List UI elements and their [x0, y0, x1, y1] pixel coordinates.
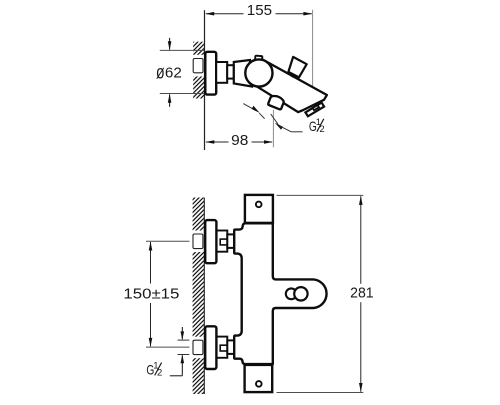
dimension 155 line — [206, 13, 312, 15]
G1/2 upper leader arrow 1 — [243, 104, 256, 111]
small outlet circle — [286, 288, 297, 299]
lower escutcheon — [205, 326, 216, 369]
dimension 98 line — [206, 141, 272, 143]
valve head circle — [245, 59, 272, 86]
wall line upper — [204, 10, 206, 150]
aerator strip — [305, 103, 324, 117]
inlet square in wall upper — [193, 59, 203, 73]
dimension 150+-15 line and arrows — [150, 242, 152, 284]
top bracket hole — [256, 202, 262, 208]
big outlet circle — [294, 287, 307, 300]
upper nut — [227, 234, 234, 248]
faucet flange — [205, 52, 216, 95]
wall hatch lower — [191, 198, 204, 395]
wall hatch upper — [192, 42, 205, 99]
lower nut — [227, 340, 234, 354]
G1/2 lower text — [146, 361, 162, 379]
aerator window — [313, 105, 319, 110]
cap on valve top — [255, 56, 262, 61]
svg-text:ø: ø — [156, 62, 165, 83]
faucet body slab — [256, 60, 327, 112]
svg-text:98: 98 — [231, 132, 248, 149]
body column — [234, 223, 326, 364]
G1/2 upper leader arrow 2 — [275, 123, 283, 130]
svg-text:150±15: 150±15 — [123, 285, 179, 302]
dimension 281 extension lines — [277, 195, 364, 392]
G1/2 upper leader ticks — [259, 113, 264, 118]
top knob skirt — [288, 72, 296, 77]
bottom bracket hole — [256, 381, 262, 387]
inlet square in wall lower top — [193, 234, 203, 249]
svg-text:2: 2 — [157, 367, 162, 378]
dimension 281 line and arrows — [360, 196, 362, 284]
top knob — [288, 57, 306, 77]
dimension 150+-15 extension lines — [146, 241, 190, 347]
faucet neck — [216, 62, 227, 83]
svg-text:62: 62 — [165, 65, 182, 82]
dimension 155 arrows — [205, 12, 214, 16]
extension line for 98 — [272, 110, 274, 147]
lower union notch — [220, 345, 227, 351]
dimension o62 extension lines — [160, 50, 204, 93]
dimension G1/2 lower arrows — [181, 327, 183, 339]
svg-text:155: 155 — [247, 2, 272, 19]
diverter knob — [268, 94, 285, 110]
wall line lower — [203, 198, 205, 395]
upper escutcheon — [205, 220, 216, 263]
extension line right of 155 — [312, 10, 314, 102]
bottom mounting bracket — [245, 365, 273, 392]
svg-text:281: 281 — [350, 285, 374, 302]
inlet square in wall lower bottom — [193, 340, 203, 354]
lower union — [216, 337, 227, 358]
upper union notch — [220, 239, 227, 245]
G1/2 upper text — [309, 117, 325, 135]
faucet cone — [234, 60, 252, 87]
dimension G1/2 lower ticks — [178, 340, 190, 354]
dimension 98 arrows — [205, 140, 214, 144]
upper union — [216, 231, 227, 252]
dimension o62 arrows — [169, 38, 171, 50]
top mounting bracket — [245, 195, 273, 223]
svg-text:2: 2 — [319, 124, 324, 135]
faucet waist — [227, 65, 234, 78]
